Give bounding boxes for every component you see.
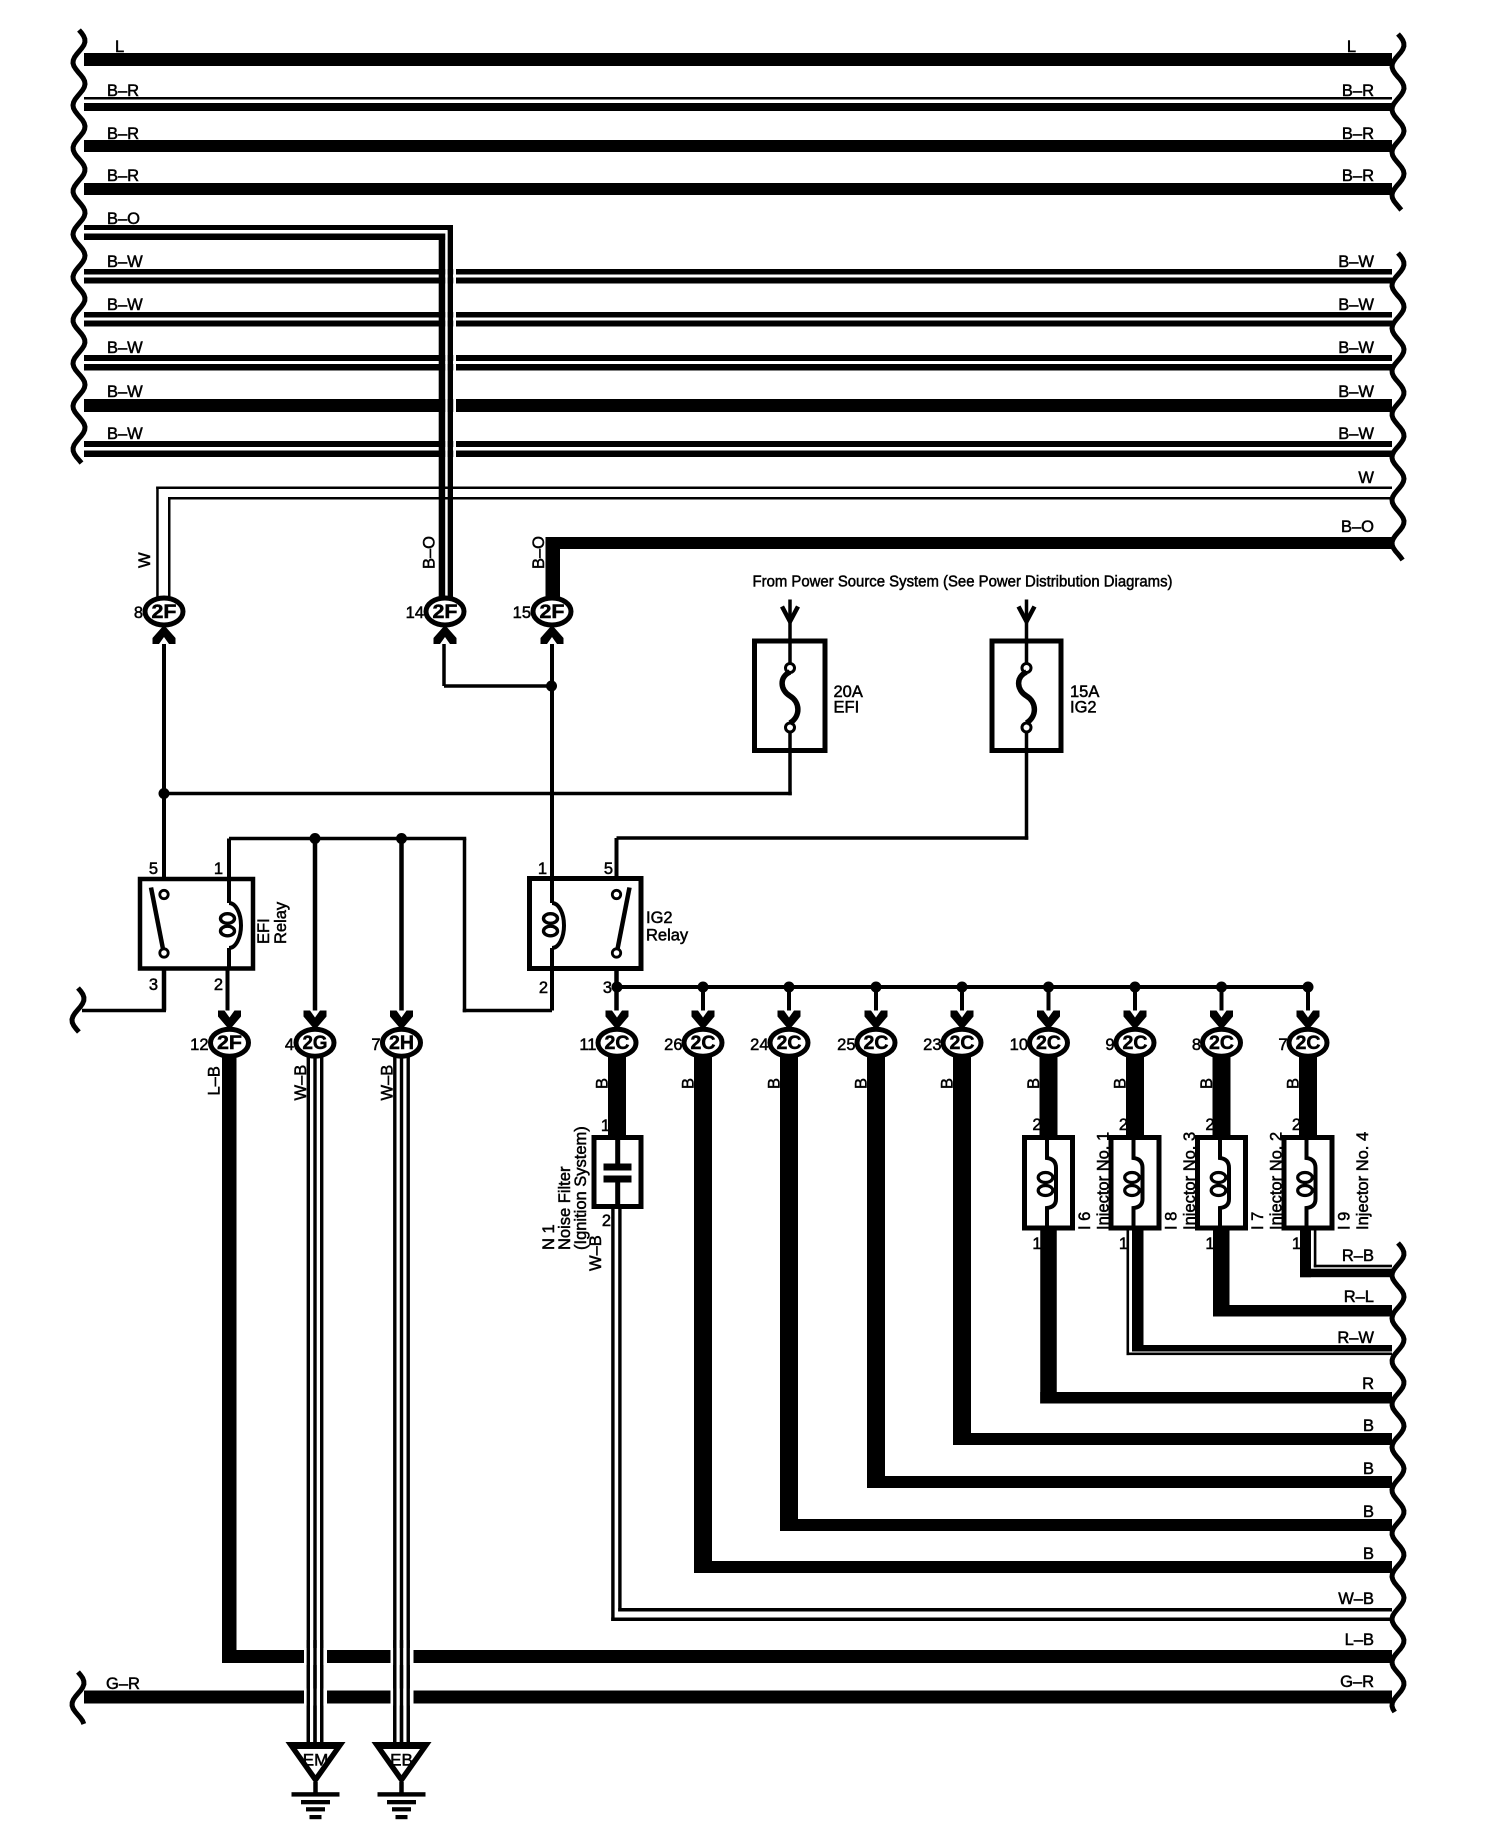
injector I6 box [1025, 1138, 1073, 1229]
EFI relay coil [229, 903, 241, 948]
svg-text:I 7: I 7 [1249, 1212, 1267, 1230]
svg-text:2: 2 [539, 979, 548, 997]
svg-text:B: B [1285, 1078, 1303, 1089]
svg-text:1: 1 [1032, 1235, 1041, 1253]
feed wire with arrow into fuse 15A IG2 [1025, 600, 1029, 667]
junction dot at bus for connector 11-2C [612, 982, 623, 993]
svg-text:EFI: EFI [834, 699, 860, 717]
svg-text:L: L [1347, 38, 1356, 56]
svg-text:B–W: B–W [107, 253, 143, 271]
arrow into connector 11-2C [606, 1011, 629, 1031]
drop wire to connector 10-2C [1047, 989, 1051, 1011]
connector 24 2C [770, 1029, 808, 1056]
wire R-L from injector I7 to right edge [1213, 1228, 1230, 1317]
svg-text:B: B [939, 1078, 957, 1089]
arrow into connector 14 [434, 625, 457, 644]
injector I8 coil [1134, 1140, 1143, 1226]
svg-text:W: W [136, 552, 154, 568]
drop wire to connector 26-2C [701, 989, 705, 1011]
svg-text:B: B [1363, 1545, 1374, 1563]
svg-text:R–L: R–L [1344, 1288, 1374, 1306]
wire B-O bus (row 5, left portion, turns down to connector 14) [84, 225, 453, 230]
left edge break symbol (top rows) [73, 30, 85, 463]
svg-text:2F: 2F [433, 602, 458, 623]
svg-text:B–W: B–W [107, 383, 143, 401]
IG2 relay coil [550, 879, 554, 904]
junction dot at bus for connector 24-2C [784, 982, 795, 993]
connector 8 2C [1203, 1029, 1241, 1056]
wire B-O bus (row 12, right portion from connector 15) [546, 537, 1393, 549]
wire B-W bus (row 6) [84, 269, 1392, 275]
svg-text:B–W: B–W [107, 339, 143, 357]
injector I6 coil [1047, 1140, 1056, 1226]
wire L bus (top row 1) [84, 53, 1392, 66]
arrow into connector 26-2C [692, 1011, 715, 1031]
ground wire triple from connector 4-2G [307, 1057, 310, 1743]
EFI relay box [140, 879, 253, 969]
connector 12 2F [211, 1029, 249, 1056]
injector I8 box [1111, 1138, 1159, 1229]
svg-text:2C: 2C [864, 1033, 889, 1054]
arrow into connector 12 [218, 1011, 241, 1031]
svg-text:R–B: R–B [1342, 1247, 1374, 1265]
svg-text:W–B: W–B [292, 1065, 310, 1101]
svg-text:R: R [1362, 1375, 1374, 1393]
svg-text:9: 9 [1105, 1036, 1114, 1054]
svg-text:B–W: B–W [107, 296, 143, 314]
drop wire to connector 9-2C [1133, 989, 1137, 1011]
svg-text:14: 14 [406, 604, 424, 622]
svg-text:2: 2 [1292, 1116, 1301, 1134]
wire R-B from injector I9 to right edge [1300, 1228, 1311, 1277]
svg-text:7: 7 [1278, 1036, 1287, 1054]
svg-text:B–W: B–W [1338, 425, 1374, 443]
injector I9 box [1284, 1138, 1332, 1229]
noise filter N1 box [594, 1138, 641, 1207]
svg-text:2C: 2C [1296, 1033, 1321, 1054]
arrow into connector 9-2C [1124, 1011, 1147, 1031]
arrow into connector 24-2C [778, 1011, 801, 1031]
svg-text:2: 2 [602, 1212, 611, 1230]
injector I7 coil [1220, 1140, 1229, 1226]
arrow into connector 7 [390, 1011, 413, 1031]
wire EFI relay pin 2 down to connector 12 [226, 969, 230, 1011]
arrow into connector 25-2C [865, 1011, 888, 1031]
connector 25 2C [857, 1029, 895, 1056]
svg-text:B–W: B–W [107, 425, 143, 443]
wire B below connector 23-2C [953, 1056, 971, 1445]
drop wire to connector 24-2C [787, 989, 791, 1011]
junction dot at bus for connector 23-2C [957, 982, 968, 993]
svg-text:23: 23 [923, 1036, 941, 1054]
svg-text:B–O: B–O [421, 536, 439, 569]
svg-text:Injector No. 4: Injector No. 4 [1354, 1132, 1372, 1230]
wire B below connector 11-2C [608, 1056, 626, 1138]
svg-text:I 9: I 9 [1336, 1212, 1354, 1230]
connector 4 2G [296, 1029, 334, 1056]
svg-text:1: 1 [214, 860, 223, 878]
wire down to connector 4-2G from EFI pin1 line [313, 839, 318, 1011]
svg-text:2H: 2H [389, 1033, 414, 1054]
wire W-B pair below noise filter [611, 1207, 614, 1622]
svg-text:12: 12 [190, 1036, 208, 1054]
wire B-W bus (row 10) [84, 441, 1392, 447]
svg-text:I 6: I 6 [1076, 1212, 1094, 1230]
connector 11 2C [598, 1029, 636, 1056]
svg-text:B–W: B–W [1338, 296, 1374, 314]
svg-text:10: 10 [1010, 1036, 1028, 1054]
wire B-R bus (row 2) [84, 97, 1392, 100]
svg-text:1: 1 [1292, 1235, 1301, 1253]
svg-text:4: 4 [285, 1036, 294, 1054]
wire B below connector 7-2C [1299, 1056, 1317, 1138]
svg-text:I 8: I 8 [1163, 1212, 1181, 1230]
wire B below connector 8-2C [1213, 1056, 1231, 1138]
wire EFI relay pin1 right/down/right to IG2 relay pin 2 [229, 837, 466, 841]
arrow into connector 15 [541, 625, 564, 644]
svg-text:2C: 2C [950, 1033, 975, 1054]
injector I9 coil [1307, 1140, 1316, 1226]
svg-text:2C: 2C [777, 1033, 802, 1054]
wire B below connector 9-2C [1126, 1056, 1144, 1138]
connector 15 2F [533, 598, 571, 625]
svg-text:1: 1 [601, 1117, 610, 1135]
drop wire to connector 25-2C [874, 989, 878, 1011]
svg-text:B–R: B–R [1342, 82, 1374, 100]
svg-text:EM: EM [303, 1751, 329, 1770]
svg-text:3: 3 [149, 976, 158, 994]
svg-text:2C: 2C [605, 1033, 630, 1054]
svg-text:2F: 2F [217, 1033, 242, 1054]
svg-text:Relay: Relay [272, 901, 290, 944]
connector 26 2C [684, 1029, 722, 1056]
svg-text:2F: 2F [152, 602, 177, 623]
svg-text:B: B [1363, 1417, 1374, 1435]
wire IG2 relay pin 3 down to bus [614, 969, 619, 1011]
svg-text:B–W: B–W [1338, 253, 1374, 271]
ground wire triple 2H over crossings [393, 1640, 396, 1742]
svg-text:2: 2 [1032, 1116, 1041, 1134]
svg-text:25: 25 [837, 1036, 855, 1054]
svg-text:8: 8 [134, 604, 143, 622]
svg-text:26: 26 [664, 1036, 682, 1054]
svg-text:(Ignition System): (Ignition System) [572, 1126, 590, 1250]
connector 14 2F [426, 598, 464, 625]
wire W bus pair (row 11, from connector 8 to right edge) [156, 487, 1392, 490]
noise filter capacitor [615, 1140, 620, 1164]
connector 23 2C [943, 1029, 981, 1056]
wire W vertical pair down to connector 8-2F [156, 487, 159, 600]
right edge break symbol (bottom rows) [1392, 1243, 1404, 1712]
svg-text:2: 2 [1205, 1116, 1214, 1134]
wire B row 3 from connector 24-2C [780, 1519, 1392, 1531]
svg-text:B: B [766, 1078, 784, 1089]
svg-text:B: B [1025, 1078, 1043, 1089]
EFI relay pin 1 wire from top [227, 839, 231, 904]
wire B row 1 from connector 23-2C [953, 1433, 1392, 1445]
svg-text:B: B [1363, 1460, 1374, 1478]
arrow into connector 4 [304, 1011, 327, 1031]
feed wire with arrow into fuse 20A EFI [788, 600, 792, 667]
EFI relay switch contacts [160, 890, 168, 898]
wire B-R bus (row 3) [84, 140, 1392, 152]
right edge break symbol (rows 1-4) [1392, 34, 1404, 210]
arrow into connector 7-2C [1297, 1011, 1320, 1031]
wire B-R bus (row 4) [84, 183, 1392, 195]
svg-text:L–B: L–B [206, 1066, 224, 1095]
svg-text:5: 5 [149, 860, 158, 878]
svg-text:B–O: B–O [107, 210, 140, 228]
svg-text:Relay: Relay [646, 927, 689, 945]
svg-text:B: B [1363, 1503, 1374, 1521]
connector 9 2C [1116, 1029, 1154, 1056]
wire B-O vertical from bus to connector 14-2F [439, 234, 446, 600]
junction dot at bus for connector 25-2C [871, 982, 882, 993]
svg-text:W–B: W–B [587, 1235, 605, 1271]
IG2 relay switch contacts [612, 890, 620, 898]
svg-text:24: 24 [750, 1036, 768, 1054]
svg-text:2G: 2G [303, 1033, 328, 1054]
svg-text:G–R: G–R [1340, 1673, 1374, 1691]
injector I7 box [1198, 1138, 1246, 1229]
svg-text:B–R: B–R [107, 82, 139, 100]
junction dot at bus for connector 9-2C [1130, 982, 1141, 993]
svg-text:B–W: B–W [1338, 339, 1374, 357]
right edge break symbol (rows 6-12) [1392, 253, 1404, 560]
wire EFI relay pin 3 to left edge break [162, 969, 167, 1011]
svg-text:B: B [1112, 1078, 1130, 1089]
wire fuse 15A down-left to IG2 relay pin 5 [1025, 732, 1029, 840]
svg-text:G–R: G–R [106, 1675, 140, 1693]
left edge break at EFI relay pin 3 stub [72, 988, 84, 1032]
ground wire triple 2G over crossings [307, 1640, 310, 1742]
svg-text:B: B [594, 1078, 612, 1089]
drop wire to connector 23-2C [960, 989, 964, 1011]
wire from connector 14 down and right to junction [442, 644, 446, 686]
crossing gaps for ground wires over L-B and G-R rows [304, 1648, 327, 1665]
svg-text:15: 15 [513, 604, 531, 622]
wire B-W bus (row 7) [84, 312, 1392, 318]
svg-text:1: 1 [538, 860, 547, 878]
svg-text:B–R: B–R [107, 167, 139, 185]
connector 7 2C [1289, 1029, 1327, 1056]
svg-text:IG2: IG2 [646, 909, 673, 927]
arrow into connector 23-2C [951, 1011, 974, 1031]
wire B row 4 from connector 26-2C [694, 1561, 1392, 1573]
svg-text:IG2: IG2 [1070, 699, 1097, 717]
wire fuse 20A to junction on EFI relay pin5 wire [788, 732, 792, 795]
wire B-W bus (row 9) [84, 399, 1392, 412]
fuse 15A IG2 [992, 641, 1061, 751]
wire B below connector 24-2C [780, 1056, 798, 1531]
wire B-O vertical from row 12 down to connector 15-2F [546, 537, 561, 599]
svg-text:2C: 2C [1036, 1033, 1061, 1054]
wire B below connector 26-2C [694, 1056, 712, 1573]
svg-text:5: 5 [604, 860, 613, 878]
wire B-W bus (row 8) [84, 355, 1392, 361]
svg-text:2F: 2F [540, 602, 565, 623]
wire W-B row to right edge [618, 1608, 1392, 1612]
svg-text:EFI: EFI [255, 918, 273, 944]
svg-text:B–R: B–R [107, 125, 139, 143]
wire B row 2 from connector 25-2C [867, 1476, 1392, 1488]
wire from connector 15 down to IG2 relay pin 1 [550, 644, 554, 879]
left edge break symbol at G-R [72, 1672, 84, 1724]
svg-text:11: 11 [579, 1036, 596, 1054]
svg-text:7: 7 [371, 1036, 380, 1054]
wire R-W from injector I8 to right edge [1127, 1228, 1130, 1355]
svg-text:3: 3 [603, 979, 612, 997]
svg-text:B–R: B–R [1342, 167, 1374, 185]
junction dot at 7-2H drop [396, 833, 407, 844]
svg-text:B: B [1198, 1078, 1216, 1089]
wire L-B row to right edge [222, 1650, 1392, 1663]
connector 8 2F [145, 598, 183, 625]
svg-text:L: L [115, 38, 124, 56]
fuse 20A EFI [755, 641, 826, 751]
ground EB [372, 1742, 432, 1785]
svg-text:2: 2 [214, 976, 223, 994]
wire L-B from connector 12 to bottom row [222, 1056, 237, 1663]
junction dot at bus for connector 10-2C [1043, 982, 1054, 993]
splice bus from IG2 pin 3 to injector drops [617, 985, 1311, 989]
svg-text:2C: 2C [1209, 1033, 1234, 1054]
svg-text:L–B: L–B [1345, 1631, 1374, 1649]
svg-text:W–B: W–B [379, 1065, 397, 1101]
wire B below connector 10-2C [1040, 1056, 1058, 1138]
svg-text:From Power Source System (See: From Power Source System (See Power Dist… [753, 574, 1173, 591]
IG2 relay box [530, 879, 642, 969]
svg-text:B–O: B–O [530, 536, 548, 569]
svg-text:B–R: B–R [1342, 125, 1374, 143]
wire R from injector I6 to right edge [1040, 1228, 1057, 1404]
junction dot at 4-2G drop [310, 833, 321, 844]
white core of B-O vertical wire [445, 231, 447, 597]
ground EM [286, 1742, 346, 1785]
wire G-R row full width [84, 1691, 1392, 1704]
junction dot connectors 14/15 [546, 681, 557, 692]
svg-text:W: W [1358, 469, 1374, 487]
svg-text:EB: EB [390, 1751, 413, 1770]
svg-text:2C: 2C [691, 1033, 716, 1054]
svg-text:B–O: B–O [1341, 518, 1374, 536]
svg-text:B: B [853, 1078, 871, 1089]
junction dot at bus for connector 26-2C [698, 982, 709, 993]
wire B below connector 25-2C [867, 1056, 885, 1488]
arrow into connector 8 [153, 625, 176, 644]
connector 7 2H [383, 1029, 421, 1056]
connector 10 2C [1030, 1029, 1068, 1056]
wire from connector 8 down to EFI relay pin 5 [162, 644, 166, 879]
junction dot fuse20A line at EFI relay pin 5 wire [159, 788, 170, 799]
svg-text:R–W: R–W [1337, 1329, 1374, 1347]
drop wire to connector 8-2C [1220, 989, 1224, 1011]
svg-text:B: B [680, 1078, 698, 1089]
svg-text:W–B: W–B [1338, 1590, 1374, 1608]
arrow into connector 10-2C [1037, 1011, 1060, 1031]
svg-text:B–W: B–W [1338, 383, 1374, 401]
arrow into connector 8-2C [1210, 1011, 1233, 1031]
ground wire triple from connector 7-2H [393, 1057, 396, 1743]
svg-text:8: 8 [1192, 1036, 1201, 1054]
wire down to connector 7-2H from EFI pin1 line [399, 839, 404, 1011]
junction dot at bus for connector 8-2C [1216, 982, 1227, 993]
svg-text:2: 2 [1119, 1116, 1128, 1134]
svg-text:2C: 2C [1123, 1033, 1148, 1054]
drop wire to connector 7-2C [1306, 989, 1310, 1011]
junction dot at bus for connector 7-2C [1303, 982, 1314, 993]
